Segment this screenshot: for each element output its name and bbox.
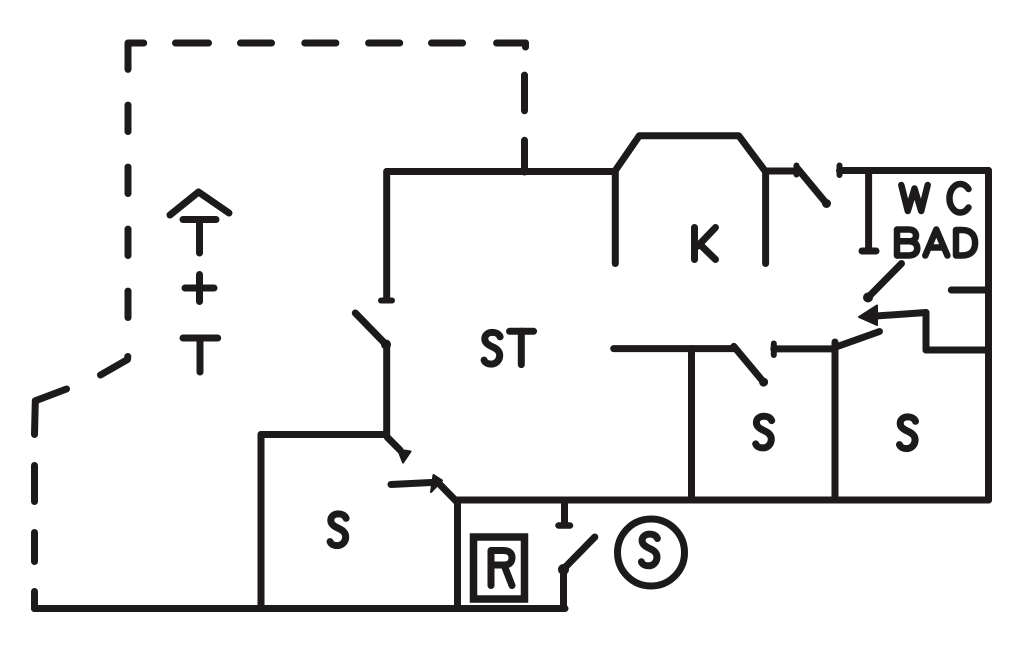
plus sign (drawn)	[185, 275, 214, 302]
letter T (lower, drawn)	[183, 338, 218, 372]
top wall of ST room	[387, 168, 615, 175]
main building bottom wall	[457, 497, 989, 504]
left S room left wall	[258, 435, 265, 609]
letters WC	[901, 184, 968, 213]
door stub next to R closet	[561, 500, 568, 524]
letter R in box	[491, 551, 512, 586]
terrace dashed outline: diagonal dashes	[35, 357, 128, 435]
letter S in circle	[641, 534, 657, 566]
roof symbol over T	[170, 192, 229, 215]
middle S door leaf end blob	[759, 378, 768, 387]
WC/BAD divider wall	[865, 171, 872, 251]
R closet right wall	[560, 570, 567, 609]
right S door leaf	[836, 332, 880, 348]
right exterior wall	[985, 171, 992, 501]
arrow into left S room	[388, 438, 411, 463]
middle S door leaf	[734, 346, 764, 382]
letter S right room	[900, 417, 916, 449]
R closet left wall	[454, 501, 461, 609]
R closet door leaf	[563, 537, 595, 570]
entrance arrow (lower, pointing up-right)	[391, 475, 442, 492]
right divider wall	[832, 342, 839, 500]
letter K	[695, 228, 716, 260]
R closet door hinge blob	[558, 564, 569, 575]
letter S in ST	[484, 332, 500, 364]
ST door leaf	[355, 313, 384, 343]
terrace dashed vertical at right	[525, 43, 526, 172]
hall step horizontal wall	[926, 347, 989, 354]
letter T in ST	[510, 331, 534, 364]
terrace dashed outline: top edge dashes	[176, 40, 526, 47]
S circle symbol	[618, 519, 685, 586]
middle divider wall	[688, 349, 695, 500]
terrace dashed outline: left upper vertical dashes	[125, 105, 132, 317]
WC door leaf	[868, 264, 902, 298]
interior wall between doors	[774, 345, 835, 352]
wall end tick left of right section	[771, 344, 777, 356]
kitchen bay window	[615, 136, 766, 172]
wall end tick at kitchen door	[794, 166, 800, 175]
building bottom wall (lower, terrace+S room)	[35, 605, 566, 612]
kitchen door leaf end blob	[822, 199, 831, 208]
left S room top wall	[261, 431, 386, 438]
WC/BAD divider foot	[862, 248, 876, 255]
interior wall left of middle S room	[614, 345, 734, 352]
ST left wall upper segment foot	[381, 298, 392, 304]
terrace dashed outline: top edge corner	[128, 43, 144, 69]
letter S left room	[330, 514, 346, 546]
R box	[474, 537, 525, 599]
letters BAD	[897, 230, 975, 256]
kitchen right wall	[762, 172, 769, 264]
door stub foot	[559, 522, 571, 529]
letter T (upper, drawn)	[183, 220, 216, 254]
kitchen door leaf	[798, 169, 827, 204]
entrance arrow at hall (pointing left)	[859, 306, 926, 326]
top wall right section	[840, 167, 989, 174]
terrace bottom-left solid corner	[31, 592, 38, 609]
top wall segment right of bay	[766, 168, 797, 175]
wall end tick right of kitchen door	[837, 166, 843, 176]
ST left wall lower segment	[383, 345, 390, 436]
kitchen left wall	[612, 172, 619, 264]
ST left wall upper segment	[383, 172, 390, 301]
ST door hinge blob	[381, 340, 391, 350]
notch wall in BAD	[951, 287, 988, 294]
hall step vertical wall	[923, 313, 930, 351]
WC door leaf end blob	[863, 293, 873, 303]
terrace dashed outline: left lower vertical dashes	[31, 466, 38, 562]
diagonal wall to bottom corner	[439, 484, 457, 502]
letter S middle room	[756, 416, 772, 448]
